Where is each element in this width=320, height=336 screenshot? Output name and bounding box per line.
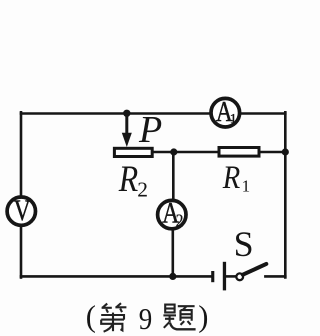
svg-text:(: ( xyxy=(86,300,96,334)
wire top-right segment xyxy=(241,112,285,115)
node junction R2-R1-A2 xyxy=(170,148,177,155)
switch S pivot xyxy=(236,273,243,280)
ammeter A2 circle xyxy=(158,200,186,228)
node junction bottom wire / A2 xyxy=(169,273,176,280)
slider arrowhead P xyxy=(122,133,132,147)
battery long plate xyxy=(223,262,226,291)
wire middle branch R1 to right xyxy=(261,151,286,154)
svg-text:2: 2 xyxy=(137,178,148,202)
voltmeter V circle xyxy=(7,197,35,225)
svg-text:9: 9 xyxy=(139,302,152,336)
node junction on top wire (slider tap) xyxy=(123,110,130,117)
caption hanzi TI (题) xyxy=(163,305,195,330)
wire left vertical lower xyxy=(20,227,23,278)
wire top-left segment xyxy=(21,112,210,115)
wire bottom-right segment xyxy=(265,275,285,278)
svg-text:2: 2 xyxy=(176,210,184,230)
svg-text:): ) xyxy=(198,300,208,334)
svg-text:1: 1 xyxy=(242,177,251,196)
svg-text:1: 1 xyxy=(230,112,237,127)
wire right vertical xyxy=(284,112,287,277)
svg-text:V: V xyxy=(14,193,31,226)
wire bottom-left segment xyxy=(21,275,211,278)
ammeter A1 circle xyxy=(211,98,240,127)
wire battery to switch pivot xyxy=(226,275,236,278)
svg-text:R: R xyxy=(222,160,241,196)
svg-text:S: S xyxy=(234,224,254,264)
node junction right wire / R1 xyxy=(282,148,289,155)
wire slider stem xyxy=(125,114,128,137)
svg-text:P: P xyxy=(138,109,162,151)
wire A2 branch lower xyxy=(172,230,175,276)
rheostat R2 body xyxy=(114,148,152,156)
wire middle branch R2 to R1 xyxy=(154,151,218,154)
battery short plate xyxy=(211,271,214,282)
resistor R1 body xyxy=(219,148,259,157)
caption hanzi DI (第) xyxy=(101,303,126,332)
svg-text:R: R xyxy=(118,159,138,200)
wire A2 branch upper xyxy=(172,152,175,199)
switch S blade xyxy=(243,264,266,275)
wire left vertical upper xyxy=(20,112,23,195)
